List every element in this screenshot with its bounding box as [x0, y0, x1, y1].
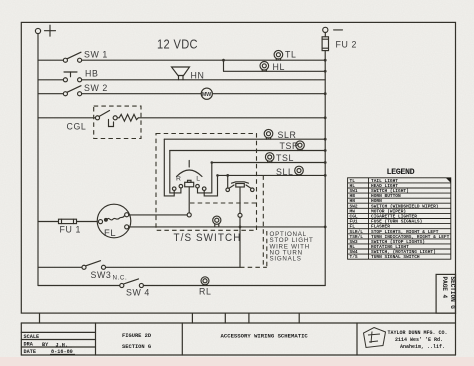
svg-text:SW 4: SW 4 [126, 288, 150, 298]
svg-text:DATE: DATE [24, 349, 36, 355]
svg-text:CIGARETTE LIGHTER: CIGARETTE LIGHTER [371, 214, 417, 220]
svg-text:CGL: CGL [350, 214, 358, 220]
svg-text:L: L [196, 176, 200, 183]
svg-text:TL: TL [350, 178, 356, 184]
svg-text:SLL: SLL [276, 167, 293, 177]
svg-text:HL: HL [273, 62, 285, 72]
svg-text:SCALE: SCALE [24, 334, 40, 340]
svg-text:FU1: FU1 [350, 219, 358, 225]
svg-text:ACCESSORY WIRING SCHEMATIC: ACCESSORY WIRING SCHEMATIC [221, 333, 309, 340]
svg-text:FLASHER: FLASHER [371, 224, 390, 230]
svg-text:N.C.: N.C. [113, 275, 128, 282]
svg-text:SECTION G: SECTION G [122, 344, 151, 350]
svg-text:TURN SIGNAL SWITCH: TURN SIGNAL SWITCH [371, 254, 420, 260]
svg-text:MW: MW [350, 208, 356, 214]
svg-text:SWITCH, (ROTATING LIGHT): SWITCH, (ROTATING LIGHT) [371, 249, 436, 255]
svg-text:RL: RL [199, 287, 211, 297]
svg-text:SW3: SW3 [91, 270, 112, 280]
svg-text:SW 2: SW 2 [84, 83, 108, 93]
svg-text:MW: MW [202, 92, 212, 98]
svg-text:HN: HN [191, 71, 205, 81]
svg-text:T/S: T/S [350, 254, 358, 260]
svg-text:SWITCH (STOP LIGHTS): SWITCH (STOP LIGHTS) [371, 239, 425, 245]
svg-text:SECTION G: SECTION G [449, 277, 456, 310]
svg-text:SWITCH (WINDSHIELD WIPER): SWITCH (WINDSHIELD WIPER) [371, 203, 439, 209]
svg-text:FL: FL [350, 224, 356, 230]
svg-text:CGL: CGL [67, 122, 87, 132]
svg-text:T/S SWITCH: T/S SWITCH [174, 232, 242, 244]
svg-text:HORN: HORN [371, 198, 382, 204]
svg-text:SLR/L: SLR/L [350, 229, 364, 235]
svg-text:RL: RL [350, 244, 356, 250]
svg-text:2114 Wes’ ’E Rd.: 2114 Wes’ ’E Rd. [395, 337, 443, 343]
svg-text:HB: HB [85, 69, 98, 79]
svg-text:SW3: SW3 [350, 239, 358, 245]
svg-text:ROTATING LIGHT: ROTATING LIGHT [371, 244, 409, 250]
svg-text:DRA: DRA [24, 342, 34, 348]
svg-text:TL: TL [285, 50, 296, 60]
svg-text:SWITCH (LIGHT): SWITCH (LIGHT) [371, 188, 409, 194]
svg-text:SW 1: SW 1 [84, 50, 108, 60]
svg-text:SW4: SW4 [350, 249, 358, 255]
svg-text:12 VDC: 12 VDC [157, 37, 198, 52]
svg-text:FU 2: FU 2 [336, 40, 357, 50]
svg-text:SLR: SLR [278, 130, 297, 140]
svg-text:FL: FL [104, 227, 116, 238]
svg-text:R: R [176, 176, 182, 183]
svg-text:Anaheim, ..lif.: Anaheim, ..lif. [400, 344, 445, 350]
svg-text:TAIL LIGHT: TAIL LIGHT [371, 178, 398, 184]
svg-text:FU 1: FU 1 [60, 225, 81, 235]
svg-text:FIGURE 2D: FIGURE 2D [122, 333, 152, 339]
svg-text:MOTOR (WIPER): MOTOR (WIPER) [371, 208, 406, 214]
svg-text:HN: HN [350, 198, 356, 204]
svg-text:FUSE (TURN SIGNALS): FUSE (TURN SIGNALS) [371, 219, 422, 225]
svg-text:LEGEND: LEGEND [387, 167, 415, 177]
svg-text:TSL: TSL [276, 153, 294, 163]
svg-text:TSR: TSR [280, 141, 299, 151]
svg-text:HL: HL [350, 183, 356, 189]
svg-text:STOP LIGHTS, RIGHT & LEFT: STOP LIGHTS, RIGHT & LEFT [371, 229, 439, 235]
svg-text:SW2: SW2 [350, 203, 358, 209]
svg-text:BY: BY [42, 342, 49, 348]
svg-text:PAGE 4: PAGE 4 [441, 277, 448, 299]
svg-text:SIGNALS: SIGNALS [270, 256, 302, 263]
svg-text:SW1: SW1 [350, 188, 358, 194]
svg-text:TAYLOR DUNN MFG. CO.: TAYLOR DUNN MFG. CO. [388, 330, 448, 336]
svg-text:HEAD LIGHT: HEAD LIGHT [371, 183, 398, 189]
